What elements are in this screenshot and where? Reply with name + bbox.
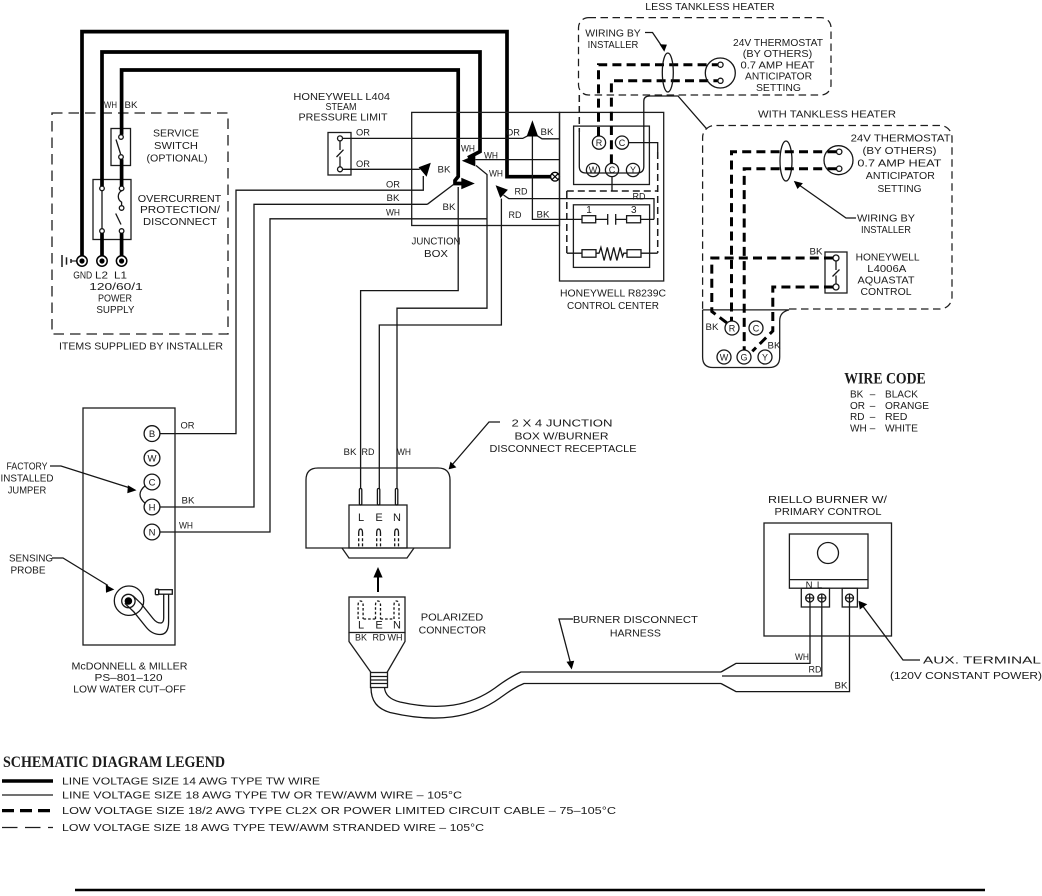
svg-text:L: L xyxy=(817,580,822,591)
svg-text:L4006A: L4006A xyxy=(867,263,906,275)
svg-text:POWER: POWER xyxy=(98,293,132,305)
svg-text:(BY OTHERS): (BY OTHERS) xyxy=(743,48,813,60)
svg-text:WH: WH xyxy=(179,521,193,532)
svg-text:120/60/1: 120/60/1 xyxy=(89,281,143,293)
svg-text:CONTROL: CONTROL xyxy=(861,286,912,298)
svg-text:E: E xyxy=(375,512,382,524)
svg-text:JUMPER: JUMPER xyxy=(8,485,47,497)
svg-text:WH: WH xyxy=(484,151,498,162)
svg-text:WH: WH xyxy=(397,447,411,458)
svg-text:ANTICIPATOR: ANTICIPATOR xyxy=(866,170,935,182)
svg-text:–: – xyxy=(870,412,876,423)
svg-text:POLARIZED: POLARIZED xyxy=(421,612,484,624)
svg-text:LESS TANKLESS HEATER: LESS TANKLESS HEATER xyxy=(645,1,775,13)
svg-text:C: C xyxy=(149,477,156,488)
svg-text:24V THERMOSTAT: 24V THERMOSTAT xyxy=(733,37,824,49)
svg-text:BK: BK xyxy=(344,447,358,458)
svg-text:OR: OR xyxy=(356,159,370,170)
svg-text:AUX. TERMINAL: AUX. TERMINAL xyxy=(923,655,1041,667)
svg-text:RD: RD xyxy=(362,447,375,458)
svg-text:C: C xyxy=(619,138,626,148)
svg-text:1: 1 xyxy=(586,205,592,216)
svg-text:WIRING BY: WIRING BY xyxy=(585,28,641,40)
svg-text:JUNCTION: JUNCTION xyxy=(412,236,461,248)
svg-text:PROBE: PROBE xyxy=(11,565,46,577)
svg-text:BK: BK xyxy=(537,210,551,221)
svg-text:SETTING: SETTING xyxy=(878,183,922,195)
svg-text:INSTALLED: INSTALLED xyxy=(1,473,54,485)
svg-text:2 X 4 JUNCTION: 2 X 4 JUNCTION xyxy=(512,418,613,430)
svg-text:N: N xyxy=(393,620,401,632)
svg-text:0.7 AMP HEAT: 0.7 AMP HEAT xyxy=(741,59,816,71)
svg-text:L: L xyxy=(358,512,364,524)
svg-text:N: N xyxy=(393,512,401,524)
svg-text:(OPTIONAL): (OPTIONAL) xyxy=(147,153,208,165)
svg-text:–: – xyxy=(870,401,876,412)
svg-text:3: 3 xyxy=(631,205,637,216)
svg-text:HONEYWELL R8239C: HONEYWELL R8239C xyxy=(560,288,666,300)
svg-text:H: H xyxy=(149,502,156,513)
svg-text:WITH TANKLESS HEATER: WITH TANKLESS HEATER xyxy=(758,109,896,121)
svg-text:BK: BK xyxy=(125,100,139,111)
svg-text:FACTORY: FACTORY xyxy=(7,461,48,473)
svg-text:DISCONNECT: DISCONNECT xyxy=(143,216,218,228)
svg-text:W: W xyxy=(148,453,157,464)
svg-text:WIRE CODE: WIRE CODE xyxy=(844,371,926,388)
svg-text:WH: WH xyxy=(104,100,117,111)
svg-text:LOW VOLTAGE SIZE 18 AWG TYPE T: LOW VOLTAGE SIZE 18 AWG TYPE TEW/AWM STR… xyxy=(62,823,484,834)
svg-text:ITEMS SUPPLIED BY INSTALLER: ITEMS SUPPLIED BY INSTALLER xyxy=(59,341,223,353)
svg-text:AQUASTAT: AQUASTAT xyxy=(858,275,916,287)
svg-text:BK: BK xyxy=(182,496,196,507)
svg-text:RD: RD xyxy=(850,412,864,423)
svg-text:(BY OTHERS): (BY OTHERS) xyxy=(863,145,937,157)
svg-text:Y: Y xyxy=(630,165,636,175)
svg-text:SWITCH: SWITCH xyxy=(154,140,198,152)
svg-text:BK: BK xyxy=(438,165,452,176)
svg-text:WH: WH xyxy=(489,169,503,180)
svg-text:L2: L2 xyxy=(95,271,109,282)
svg-text:OR: OR xyxy=(506,128,520,139)
svg-text:RD: RD xyxy=(373,633,386,643)
svg-text:BK: BK xyxy=(768,341,782,352)
svg-text:BK: BK xyxy=(810,247,824,258)
svg-text:LOW VOLTAGE SIZE 18/2 AWG TYPE: LOW VOLTAGE SIZE 18/2 AWG TYPE CL2X OR P… xyxy=(62,806,616,817)
svg-text:BK: BK xyxy=(835,681,849,692)
svg-text:SETTING: SETTING xyxy=(756,82,801,94)
svg-text:(120V CONSTANT POWER): (120V CONSTANT POWER) xyxy=(890,670,1042,682)
svg-text:OR: OR xyxy=(850,401,865,412)
svg-text:BURNER DISCONNECT: BURNER DISCONNECT xyxy=(573,614,699,626)
svg-text:BK: BK xyxy=(541,127,555,138)
svg-text:L: L xyxy=(358,620,364,632)
svg-text:L1: L1 xyxy=(114,271,128,282)
svg-text:BK: BK xyxy=(387,193,401,204)
svg-text:BOX: BOX xyxy=(424,248,448,260)
svg-text:C: C xyxy=(753,323,760,333)
svg-text:LINE VOLTAGE SIZE 14 AWG TYPE: LINE VOLTAGE SIZE 14 AWG TYPE TW WIRE xyxy=(62,777,320,788)
svg-text:PS–801–120: PS–801–120 xyxy=(95,672,163,684)
svg-text:G: G xyxy=(740,352,747,362)
svg-text:WHITE: WHITE xyxy=(885,423,918,434)
svg-text:R: R xyxy=(729,323,736,333)
svg-text:CONTROL CENTER: CONTROL CENTER xyxy=(567,300,659,312)
svg-text:LOW WATER CUT–OFF: LOW WATER CUT–OFF xyxy=(73,684,186,696)
svg-text:B: B xyxy=(149,429,155,440)
svg-text:ANTICIPATOR: ANTICIPATOR xyxy=(745,71,812,83)
svg-text:RED: RED xyxy=(885,412,907,423)
svg-text:HARNESS: HARNESS xyxy=(610,627,661,639)
svg-text:–: – xyxy=(870,423,876,434)
svg-text:LINE VOLTAGE SIZE 18 AWG TYPE: LINE VOLTAGE SIZE 18 AWG TYPE TW OR TEW/… xyxy=(62,791,462,802)
svg-text:McDONNELL & MILLER: McDONNELL & MILLER xyxy=(72,661,188,673)
svg-text:ORANGE: ORANGE xyxy=(885,401,929,412)
svg-text:BK: BK xyxy=(706,322,720,333)
svg-text:OR: OR xyxy=(386,179,400,190)
svg-text:RIELLO BURNER W/: RIELLO BURNER W/ xyxy=(768,494,887,506)
svg-text:SERVICE: SERVICE xyxy=(153,128,199,140)
svg-text:PROTECTION/: PROTECTION/ xyxy=(140,204,220,216)
svg-text:DISCONNECT RECEPTACLE: DISCONNECT RECEPTACLE xyxy=(490,443,637,455)
svg-text:RD: RD xyxy=(509,210,522,221)
svg-text:BOX W/BURNER: BOX W/BURNER xyxy=(515,431,609,443)
svg-text:RD: RD xyxy=(633,192,646,203)
svg-text:E: E xyxy=(375,620,382,632)
svg-text:INSTALLER: INSTALLER xyxy=(588,39,639,51)
svg-text:BK: BK xyxy=(850,390,864,401)
svg-text:BK: BK xyxy=(355,633,367,643)
svg-text:R: R xyxy=(596,138,603,148)
svg-text:C: C xyxy=(609,165,616,175)
svg-text:Y: Y xyxy=(762,352,768,362)
svg-text:WH: WH xyxy=(386,207,400,218)
svg-text:RD: RD xyxy=(515,187,528,198)
svg-text:PRESSURE LIMIT: PRESSURE LIMIT xyxy=(299,112,389,124)
svg-text:PRIMARY CONTROL: PRIMARY CONTROL xyxy=(775,506,882,518)
svg-text:W: W xyxy=(720,352,729,362)
svg-text:GND: GND xyxy=(73,271,92,282)
svg-text:WH: WH xyxy=(461,144,475,155)
svg-text:SCHEMATIC DIAGRAM LEGEND: SCHEMATIC DIAGRAM LEGEND xyxy=(3,754,225,771)
svg-text:OR: OR xyxy=(181,421,195,432)
svg-text:SENSING: SENSING xyxy=(9,553,53,565)
svg-text:CONNECTOR: CONNECTOR xyxy=(419,625,487,637)
svg-text:BLACK: BLACK xyxy=(885,390,918,401)
svg-text:WH: WH xyxy=(850,423,867,434)
svg-text:N: N xyxy=(806,580,813,591)
svg-text:0.7 AMP HEAT: 0.7 AMP HEAT xyxy=(857,158,942,170)
svg-text:HONEYWELL: HONEYWELL xyxy=(856,252,920,264)
svg-text:N: N xyxy=(149,527,156,538)
svg-text:BK: BK xyxy=(443,202,457,213)
svg-text:WH: WH xyxy=(795,652,809,663)
svg-text:SUPPLY: SUPPLY xyxy=(96,304,134,316)
svg-text:W: W xyxy=(589,165,598,175)
svg-text:WH: WH xyxy=(388,633,403,643)
svg-text:RD: RD xyxy=(809,665,822,676)
svg-text:24V THERMOSTAT: 24V THERMOSTAT xyxy=(851,133,952,145)
svg-text:–: – xyxy=(870,390,876,401)
svg-text:WIRING BY: WIRING BY xyxy=(857,213,915,225)
svg-text:INSTALLER: INSTALLER xyxy=(861,224,911,236)
svg-text:OR: OR xyxy=(356,128,370,139)
